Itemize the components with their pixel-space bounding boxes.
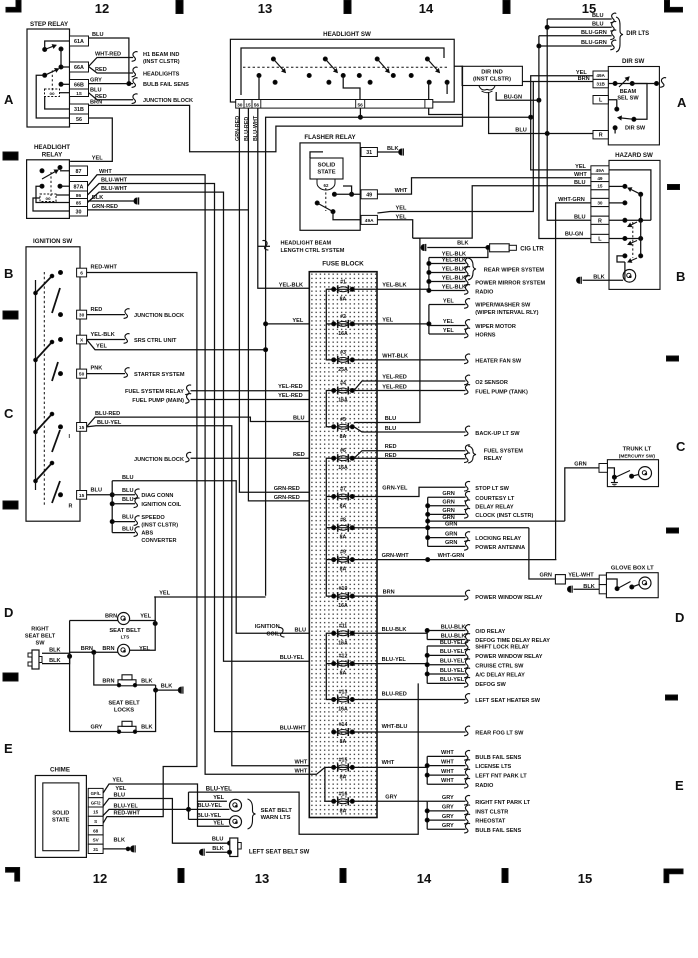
svg-text:LEFT SEAT HEATER SW: LEFT SEAT HEATER SW bbox=[475, 698, 540, 704]
hazard sw internal wire 49A bbox=[609, 170, 651, 220]
svg-text:WHT-BLU: WHT-BLU bbox=[382, 724, 408, 730]
fuse 15 input diagonal bbox=[309, 767, 325, 774]
svg-text:15: 15 bbox=[245, 102, 251, 108]
wire YEL from ign X bbox=[87, 340, 266, 350]
connector dir lt 3 bbox=[610, 30, 616, 40]
svg-text:FUEL SYSTEM: FUEL SYSTEM bbox=[484, 449, 523, 455]
svg-text:BLU-GRN: BLU-GRN bbox=[581, 30, 607, 36]
connector srs bbox=[124, 334, 130, 344]
junction dot right belt bbox=[68, 654, 72, 658]
hazard sw terminal 49 bbox=[591, 174, 609, 182]
svg-text:16A: 16A bbox=[338, 465, 348, 471]
svg-text:BLK: BLK bbox=[161, 684, 173, 690]
connector rear fog bbox=[464, 726, 470, 736]
wire BLU from 61A bbox=[89, 38, 129, 84]
svg-text:BLU-YEL: BLU-YEL bbox=[198, 803, 223, 809]
hazard sw terminal 15 bbox=[591, 182, 609, 190]
wire GRY from 66B bbox=[89, 83, 134, 85]
svg-text:BLU: BLU bbox=[122, 475, 134, 481]
ignition sw contact dot bbox=[59, 271, 63, 275]
step relay switch arrow bbox=[45, 45, 56, 49]
svg-text:WHT-RED: WHT-RED bbox=[95, 52, 121, 58]
connector power antenna bbox=[464, 541, 470, 551]
dir sw contact dot L bbox=[615, 107, 619, 111]
svg-text:BLK: BLK bbox=[141, 679, 153, 685]
svg-text:YEL: YEL bbox=[443, 299, 454, 305]
wire gry branch BULB FAIL SENS bbox=[427, 828, 465, 830]
fuse #11 16A bbox=[332, 629, 355, 637]
svg-text:GRN: GRN bbox=[445, 531, 457, 537]
connector diag conn bbox=[134, 489, 140, 499]
connector bbox=[464, 805, 470, 815]
svg-text:INST CLSTR: INST CLSTR bbox=[475, 810, 508, 816]
chime terminal 68 bbox=[88, 826, 103, 835]
dir sw contact dot bbox=[632, 117, 636, 121]
wire dir lt line 3 BLU-GRN bbox=[539, 35, 612, 37]
wire BLU-YEL warn lamp2 bbox=[189, 818, 230, 820]
wire wht branch LEFT FNT PARK LT bbox=[427, 774, 465, 776]
svg-text:62: 62 bbox=[324, 183, 329, 188]
svg-text:YEL: YEL bbox=[159, 591, 170, 597]
svg-text:YEL-WHT: YEL-WHT bbox=[568, 573, 594, 579]
wire blu-yel branch DEFOG SW bbox=[427, 682, 465, 684]
wire BLK from 31 bbox=[377, 151, 398, 153]
svg-text:87: 87 bbox=[76, 169, 82, 175]
hazard sw internal wire 15 bbox=[609, 185, 625, 187]
fuse #15 8A bbox=[332, 763, 355, 771]
svg-text:YEL: YEL bbox=[443, 319, 454, 325]
headlight sw pole 2 arrow bbox=[325, 59, 337, 73]
svg-text:YEL-RED: YEL-RED bbox=[382, 375, 407, 381]
svg-text:BLU-GRN: BLU-GRN bbox=[581, 40, 607, 46]
hazard sw contact dot bbox=[639, 192, 643, 196]
glove box contact dot bbox=[615, 587, 619, 591]
svg-text:FLASHER RELAY: FLASHER RELAY bbox=[304, 134, 356, 141]
svg-text:CONVERTER: CONVERTER bbox=[141, 538, 176, 544]
hazard sw contact dot R2 bbox=[639, 218, 643, 222]
svg-text:BLU-YEL: BLU-YEL bbox=[440, 659, 465, 665]
ignition sw contact dot bbox=[59, 425, 63, 429]
svg-text:DEFOG SW: DEFOG SW bbox=[475, 682, 506, 688]
svg-text:STATE: STATE bbox=[52, 818, 70, 824]
headlight relay terminal 87A bbox=[70, 182, 88, 192]
headlight sw contact dot bbox=[341, 74, 345, 78]
border tick bottom 1 bbox=[178, 869, 184, 883]
svg-text:BLK: BLK bbox=[49, 658, 61, 664]
svg-text:#15: #15 bbox=[339, 757, 348, 763]
step relay terminal 66A bbox=[70, 62, 89, 72]
svg-text:YEL: YEL bbox=[213, 820, 224, 826]
svg-text:YEL: YEL bbox=[292, 318, 303, 324]
wire yel branch to fuse 2 bbox=[266, 323, 310, 325]
svg-text:SV: SV bbox=[93, 838, 100, 843]
collector blu-blk bbox=[426, 631, 428, 640]
svg-text:CIG LTR: CIG LTR bbox=[520, 247, 544, 253]
svg-text:8A: 8A bbox=[340, 739, 347, 745]
fuse bus 11-13 bbox=[326, 633, 332, 699]
wire YEL-RED fuse4 out 1 bbox=[354, 381, 466, 391]
connector left seat heater bbox=[464, 694, 470, 704]
headlight sw pole 3 dot bbox=[375, 57, 379, 61]
wire wht branch BULB FAIL SENS bbox=[427, 755, 465, 757]
svg-text:SOLID: SOLID bbox=[52, 811, 69, 817]
wire BRN from 31B bbox=[89, 66, 463, 152]
wire BLK cig bbox=[427, 247, 489, 249]
glove box switch bbox=[619, 582, 631, 589]
svg-text:RADIO: RADIO bbox=[475, 289, 494, 295]
svg-text:GRN: GRN bbox=[540, 573, 552, 579]
svg-text:BLK: BLK bbox=[593, 274, 605, 280]
collector yel-blk bbox=[428, 258, 430, 290]
svg-text:LEFT SEAT BELT SW: LEFT SEAT BELT SW bbox=[249, 850, 310, 856]
svg-text:YEL-RED: YEL-RED bbox=[278, 393, 303, 399]
trunk lt ground bbox=[613, 477, 615, 482]
svg-text:LENGTH CTRL SYSTEM: LENGTH CTRL SYSTEM bbox=[281, 248, 345, 254]
headlight sw pole 4 dot bbox=[425, 57, 429, 61]
border tick right 2 bbox=[667, 356, 679, 361]
headlight sw pole 4 arrow bbox=[427, 59, 439, 73]
chime terminal SV bbox=[88, 835, 103, 844]
svg-text:RHEOSTAT: RHEOSTAT bbox=[475, 819, 506, 825]
ignition sw contact dot bbox=[59, 372, 63, 376]
fuse #9 8A bbox=[332, 556, 355, 564]
junction dot yel lamps bbox=[153, 622, 157, 626]
svg-text:#11: #11 bbox=[339, 623, 347, 629]
headlight relay internal wire 87 bbox=[60, 170, 70, 172]
svg-text:HEADLIGHT: HEADLIGHT bbox=[34, 144, 70, 151]
trunk lt contact dot 2 bbox=[630, 474, 634, 478]
glove box contact dot 2 bbox=[630, 585, 634, 589]
junction dot yel fuse2 bbox=[264, 322, 268, 326]
wire gry branch RHEOSTAT bbox=[427, 819, 465, 821]
headlight relay internal wire 86 bbox=[56, 194, 70, 196]
wire WHT fuse15 out bbox=[354, 766, 427, 768]
wire BLU-WHT to fuse 1 bbox=[258, 108, 310, 288]
svg-text:BLU: BLU bbox=[212, 837, 224, 843]
svg-text:GRN-RED: GRN-RED bbox=[274, 486, 300, 492]
border tick top 2 bbox=[344, 0, 351, 14]
svg-text:S: S bbox=[94, 819, 97, 824]
headlight relay coil bbox=[40, 194, 56, 202]
wire WHT from 87A bbox=[88, 175, 310, 775]
dir ind box bbox=[462, 66, 522, 85]
svg-text:GRY: GRY bbox=[90, 725, 102, 731]
ignition sw terminal 30 bbox=[77, 310, 87, 319]
wire wht branch LICENSE LTS bbox=[427, 765, 465, 767]
junction dot yel row bbox=[529, 115, 533, 119]
svg-text:49A: 49A bbox=[365, 218, 374, 224]
svg-text:GRN: GRN bbox=[445, 540, 457, 546]
wire BLU-YEL from ign 15 bbox=[87, 426, 310, 766]
svg-text:DELAY RELAY: DELAY RELAY bbox=[475, 504, 514, 510]
svg-text:RED: RED bbox=[95, 67, 107, 73]
headlight sw contact dot bbox=[445, 80, 449, 84]
wire BLU abs bbox=[112, 532, 135, 534]
wire BLU to hazard 15 bbox=[413, 186, 591, 238]
svg-text:GRY: GRY bbox=[442, 814, 454, 820]
step relay contact dot E bbox=[59, 82, 63, 86]
ignition sw terminal 15 bbox=[77, 423, 87, 432]
svg-text:DIR SW: DIR SW bbox=[625, 126, 646, 132]
trunk lt box bbox=[607, 460, 658, 487]
junction dot bbox=[426, 558, 430, 562]
headlight sw contact dot bbox=[327, 80, 331, 84]
wire BRN to locks bbox=[94, 652, 118, 685]
svg-text:25A: 25A bbox=[338, 367, 348, 373]
flasher relay terminal 31 bbox=[361, 148, 377, 157]
left seat belt sw bbox=[230, 838, 238, 857]
svg-text:13: 13 bbox=[255, 871, 269, 886]
collector yel bbox=[428, 305, 430, 335]
fuse bus 1-3 bbox=[326, 289, 332, 360]
svg-text:#8: #8 bbox=[340, 518, 346, 524]
wire grn trunk row bbox=[428, 520, 565, 522]
connector bbox=[464, 668, 470, 678]
svg-text:30: 30 bbox=[597, 201, 603, 206]
wire YEL-RED fuel pump bbox=[191, 393, 327, 400]
svg-text:WHT: WHT bbox=[395, 188, 408, 194]
flasher relay contact dot bbox=[315, 201, 319, 205]
wire YEL-RED fuel system relay bbox=[191, 390, 333, 392]
svg-text:#16: #16 bbox=[339, 791, 348, 797]
wire end BLK hazard bbox=[577, 277, 580, 283]
junction dot bbox=[427, 289, 431, 293]
wire BLU from ign 15b bbox=[87, 494, 113, 496]
svg-text:BLK: BLK bbox=[457, 241, 469, 247]
svg-text:CLOCK (INST CLSTR): CLOCK (INST CLSTR) bbox=[475, 513, 533, 519]
wire RED from 66A bbox=[89, 67, 134, 74]
hazard sw internal wire L bbox=[609, 238, 641, 240]
step relay internal wire D-56 bbox=[36, 75, 69, 118]
fuse bus 6-10 bbox=[326, 458, 332, 596]
flasher relay internal wire 49 bbox=[334, 193, 361, 195]
hazard sw internal wire 30 bbox=[609, 202, 625, 204]
svg-text:BLK: BLK bbox=[114, 838, 126, 844]
svg-text:BLK: BLK bbox=[141, 725, 153, 731]
svg-text:YEL-BLK: YEL-BLK bbox=[442, 276, 466, 282]
svg-text:8A: 8A bbox=[340, 808, 347, 814]
svg-text:YEL-BLK: YEL-BLK bbox=[442, 285, 466, 291]
svg-text:66A: 66A bbox=[74, 65, 84, 71]
ignition sw switch stroke bbox=[36, 276, 53, 293]
connector bbox=[464, 500, 470, 510]
wire RED from ign 30 bbox=[87, 314, 125, 316]
hazard sw box bbox=[609, 160, 660, 289]
svg-text:YEL-BLK: YEL-BLK bbox=[442, 258, 466, 264]
svg-text:WHT: WHT bbox=[295, 768, 308, 774]
svg-text:RED: RED bbox=[385, 444, 397, 450]
svg-text:49A: 49A bbox=[596, 73, 605, 78]
headlight relay contact dot bbox=[40, 169, 44, 173]
svg-text:31: 31 bbox=[366, 150, 372, 156]
wire yel-blk branch 4 bbox=[429, 290, 466, 292]
svg-text:YEL-BLK: YEL-BLK bbox=[442, 267, 466, 273]
wire BLU fuse5 out to hazard bbox=[354, 238, 420, 422]
svg-text:oo: oo bbox=[49, 91, 55, 96]
svg-text:#9: #9 bbox=[340, 550, 346, 556]
fuse bus 4-5 bbox=[326, 391, 332, 427]
svg-text:BLU: BLU bbox=[122, 515, 134, 521]
wire blu-yel branch A/C DELAY RELAY bbox=[427, 673, 465, 675]
seat belt warn lamp 2 bbox=[230, 816, 242, 828]
svg-text:BULB FAIL SENS: BULB FAIL SENS bbox=[143, 82, 189, 88]
svg-text:STOP LT SW: STOP LT SW bbox=[475, 486, 509, 492]
svg-text:8A: 8A bbox=[340, 535, 347, 541]
svg-text:SEL SW: SEL SW bbox=[617, 96, 639, 102]
connector fuel system relay bbox=[185, 385, 191, 395]
flasher relay coil bbox=[317, 179, 335, 190]
junction dot bbox=[425, 629, 429, 633]
svg-text:POWER WINDOW RELAY: POWER WINDOW RELAY bbox=[475, 654, 542, 660]
fuse #2 16A bbox=[332, 320, 355, 328]
connector headlight beam bbox=[263, 240, 269, 250]
svg-text:RED-WHT: RED-WHT bbox=[114, 811, 141, 817]
headlight relay contact dot bbox=[40, 184, 44, 188]
step relay terminal 31B bbox=[70, 104, 89, 114]
border tick bottom 2 bbox=[340, 869, 346, 883]
wire BLK right belt 2 bbox=[42, 656, 70, 663]
step relay contact dot C bbox=[59, 65, 63, 69]
hazard sw switch arrow 15 bbox=[628, 188, 641, 194]
svg-text:GF/L: GF/L bbox=[91, 791, 101, 796]
border corner mark top-right bbox=[665, 0, 683, 12]
junction dot bbox=[427, 262, 431, 266]
connector bbox=[464, 509, 470, 519]
svg-text:YEL-RED: YEL-RED bbox=[382, 385, 407, 391]
dir ind connector bbox=[479, 86, 495, 93]
headlight sw pole 3 arrow bbox=[377, 59, 389, 73]
ignition sw terminal 6 bbox=[77, 268, 87, 277]
glove box internal wire bbox=[606, 579, 617, 589]
connector ignition coil fuse11 bbox=[279, 627, 285, 637]
hazard sw switch arrow b bbox=[628, 258, 637, 262]
chime terminal GF/1 bbox=[88, 788, 103, 797]
svg-text:GRN: GRN bbox=[574, 461, 586, 467]
svg-text:FUEL PUMP (TANK): FUEL PUMP (TANK) bbox=[475, 390, 528, 396]
wire BLK chime bbox=[103, 848, 128, 850]
wire gry branch RIGHT FNT PARK LT bbox=[427, 800, 465, 802]
wire BLU-YEL chime riser bbox=[188, 792, 190, 819]
headlight sw pole 2 dot bbox=[323, 57, 327, 61]
chime box bbox=[35, 776, 86, 858]
collector wht bbox=[426, 756, 428, 784]
svg-text:LOCKING RELAY: LOCKING RELAY bbox=[475, 536, 521, 542]
svg-text:#7: #7 bbox=[340, 487, 346, 493]
hazard sw lamp bbox=[623, 270, 636, 283]
wire BLK hazard lamp bbox=[583, 279, 624, 281]
svg-text:BLU: BLU bbox=[385, 416, 397, 422]
seat belt warn lamp 1 bbox=[230, 799, 242, 811]
connector wiper motor bbox=[464, 320, 470, 330]
svg-text:56: 56 bbox=[358, 102, 364, 108]
svg-text:COIL: COIL bbox=[266, 632, 280, 638]
headlight sw contact stub 1 bbox=[258, 76, 260, 100]
svg-text:BULB FAIL SENS: BULB FAIL SENS bbox=[475, 755, 521, 761]
dir sw right edge dot bbox=[655, 82, 659, 86]
connector junction block 30 bbox=[124, 309, 130, 319]
svg-text:8A: 8A bbox=[340, 504, 347, 510]
border corner mark bottom-left bbox=[6, 868, 20, 882]
svg-text:R: R bbox=[598, 218, 602, 224]
step relay internal wire 66B bbox=[61, 83, 70, 85]
step relay coil bbox=[45, 89, 60, 97]
wire headlight beam to fuse1 bbox=[258, 245, 270, 247]
wire BRN dir ind to dir sw 31B bbox=[522, 81, 593, 83]
ignition sw switch stroke bbox=[36, 414, 53, 432]
connector wiper washer bbox=[464, 299, 470, 309]
wire yel wiper motor bbox=[429, 325, 466, 327]
wire RED fuse6 out 2 bbox=[354, 457, 466, 460]
wire defog time delay bbox=[427, 639, 465, 641]
junction dot blk chime bbox=[126, 847, 130, 851]
seat belt rail bbox=[69, 621, 71, 732]
junction dot blu-yel bbox=[187, 807, 191, 811]
junction dot bbox=[426, 519, 430, 523]
svg-text:16A: 16A bbox=[338, 707, 348, 713]
svg-text:POWER WINDOW RELAY: POWER WINDOW RELAY bbox=[475, 595, 542, 601]
hazard sw terminal L bbox=[591, 234, 609, 242]
junction dot bbox=[110, 520, 114, 524]
headlight relay internal wire coil-30 bbox=[33, 198, 70, 211]
connector fuel pump main bbox=[185, 394, 191, 404]
svg-text:BLU-YEL: BLU-YEL bbox=[206, 787, 232, 793]
svg-text:15: 15 bbox=[93, 810, 99, 815]
chime terminal S bbox=[88, 816, 103, 825]
connector dir sw right bbox=[660, 78, 666, 88]
wire yel-blk branch 1 bbox=[429, 263, 466, 265]
connector od relay bbox=[464, 625, 470, 635]
svg-text:YEL: YEL bbox=[443, 328, 454, 334]
svg-text:BRN: BRN bbox=[578, 76, 590, 82]
svg-text:50: 50 bbox=[79, 372, 85, 378]
hazard sw internal wire R bbox=[609, 219, 651, 221]
wire YEL warn lamp2 bbox=[198, 801, 230, 826]
svg-text:BLU: BLU bbox=[385, 426, 397, 432]
svg-text:BLU-BLK: BLU-BLK bbox=[382, 627, 407, 633]
fuse #8 8A bbox=[332, 524, 355, 532]
fuse #13 16A bbox=[332, 696, 355, 704]
svg-text:BRN: BRN bbox=[90, 100, 102, 106]
wire grn branch DELAY RELAY bbox=[428, 505, 466, 507]
connector fuel sys relay 1 bbox=[464, 445, 470, 455]
dir sw box bbox=[608, 67, 659, 145]
svg-text:YEL: YEL bbox=[575, 164, 586, 170]
svg-text:A: A bbox=[4, 92, 14, 107]
ignition sw switch stroke bbox=[52, 481, 60, 503]
svg-text:BLU: BLU bbox=[122, 488, 134, 494]
dir lts brace bbox=[616, 17, 623, 52]
svg-text:BU-GN: BU-GN bbox=[504, 95, 522, 101]
wire GRY fuse16 out bbox=[354, 800, 427, 802]
hazard sw terminal blank1 bbox=[591, 190, 609, 199]
svg-text:YEL: YEL bbox=[92, 156, 103, 162]
fuse block dotted body bbox=[309, 272, 377, 818]
svg-text:B: B bbox=[676, 269, 685, 284]
svg-text:HORNS: HORNS bbox=[475, 333, 495, 339]
wire PNK from ign 50 bbox=[87, 373, 125, 375]
wire BLK right belt 1 bbox=[42, 653, 70, 656]
svg-text:FUEL SYSTEM RELAY: FUEL SYSTEM RELAY bbox=[125, 389, 184, 395]
svg-text:BLU: BLU bbox=[91, 487, 103, 493]
svg-text:FUEL PUMP (MAIN): FUEL PUMP (MAIN) bbox=[132, 398, 184, 404]
svg-text:#4: #4 bbox=[340, 381, 346, 387]
svg-text:15: 15 bbox=[597, 184, 603, 189]
border tick right 4 bbox=[666, 695, 678, 700]
wire YEL chime 1 bbox=[103, 784, 227, 801]
svg-text:31B: 31B bbox=[74, 107, 84, 113]
hazard sw bottom pair wire bbox=[617, 256, 625, 262]
svg-text:POWER ANTENNA: POWER ANTENNA bbox=[475, 545, 525, 551]
